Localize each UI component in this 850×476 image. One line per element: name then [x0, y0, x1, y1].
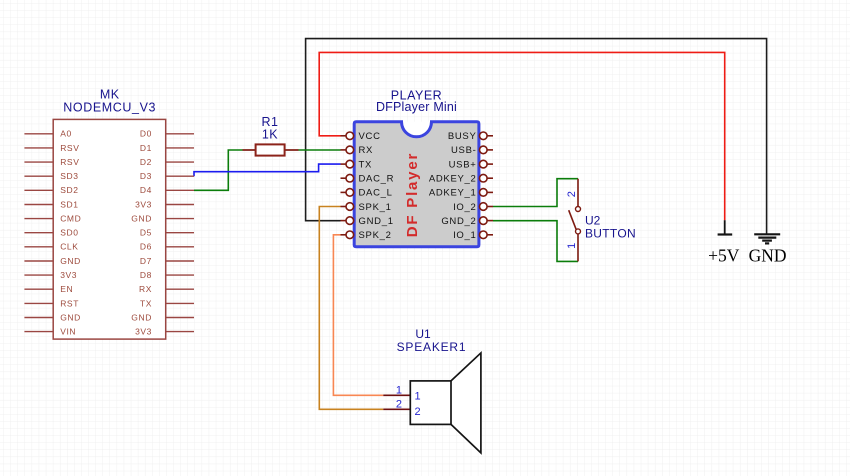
- svg-text:GND_2: GND_2: [441, 216, 476, 227]
- svg-text:GND: GND: [749, 245, 787, 265]
- svg-text:TX: TX: [359, 159, 373, 170]
- svg-text:SD3: SD3: [60, 171, 78, 181]
- DFPlayer left pin DAC_L: [341, 191, 347, 193]
- svg-text:1K: 1K: [262, 127, 278, 141]
- DFPlayer right pin IO_2: [487, 206, 493, 208]
- NodeMCU right pin D1: [166, 147, 194, 149]
- svg-text:1: 1: [415, 390, 421, 402]
- svg-text:2: 2: [415, 406, 421, 418]
- NodeMCU right pin D6: [166, 246, 194, 248]
- NodeMCU left pin 9 CLK: [24, 246, 53, 248]
- NodeMCU left pin 2 RSV: [24, 147, 53, 149]
- DFPlayer right pin USB+: [487, 163, 493, 165]
- DFPlayer right pin IO_1: [487, 234, 493, 236]
- svg-text:A0: A0: [60, 129, 72, 139]
- NodeMCU right pin 3V3: [166, 331, 194, 333]
- svg-text:GND_1: GND_1: [359, 216, 394, 227]
- NodeMCU left pin 15 VIN: [24, 331, 53, 333]
- DFPlayer left pin RX: [341, 149, 347, 151]
- NodeMCU left pin 7 CMD: [24, 218, 53, 220]
- svg-text:1: 1: [396, 385, 402, 397]
- button U2 lever: [569, 210, 577, 230]
- svg-text:BUTTON: BUTTON: [585, 227, 636, 241]
- NodeMCU left pin 13 RST: [24, 302, 53, 304]
- NodeMCU right pin D4: [166, 189, 194, 191]
- speaker body: [410, 381, 451, 425]
- svg-text:1: 1: [566, 243, 578, 249]
- svg-text:D5: D5: [140, 228, 152, 238]
- NodeMCU left pin 5 SD2: [24, 189, 53, 191]
- svg-text:U1: U1: [415, 327, 431, 341]
- DFPlayer right pin BUSY: [487, 135, 493, 137]
- svg-text:SPEAKER1: SPEAKER1: [397, 340, 467, 354]
- speaker pin 1 lead: [383, 394, 410, 396]
- svg-text:SD2: SD2: [60, 185, 78, 195]
- NodeMCU left pin 4 SD3: [24, 175, 53, 177]
- svg-text:RX: RX: [359, 145, 374, 156]
- NodeMCU left pin 6 SD1: [24, 204, 53, 206]
- svg-text:U2: U2: [585, 213, 601, 227]
- svg-text:RSV: RSV: [60, 157, 79, 167]
- svg-text:USB-: USB-: [451, 145, 477, 156]
- resistor R1 leads: [243, 149, 256, 151]
- NodeMCU left pin 8 SD0: [24, 232, 53, 234]
- wire green: resistor R1 right lead to DFPlayer RX: [299, 149, 341, 151]
- svg-text:D0: D0: [140, 129, 152, 139]
- DFPlayer right pin GND_2: [487, 220, 493, 222]
- svg-text:ADKEY_1: ADKEY_1: [429, 188, 477, 199]
- NodeMCU left pin 1 A0: [24, 133, 53, 135]
- NodeMCU right pin D7: [166, 260, 194, 262]
- NodeMCU right pin D2: [166, 161, 194, 163]
- speaker horn: [451, 353, 481, 453]
- button U2 bottom contact: [576, 229, 581, 234]
- DFPlayer left pin TX: [341, 163, 347, 165]
- svg-text:CMD: CMD: [60, 214, 81, 224]
- NodeMCU left pin 3 RSV: [24, 161, 53, 163]
- NodeMCU right pin GND: [166, 317, 194, 319]
- NodeMCU right pin TX: [166, 302, 194, 304]
- svg-text:SD1: SD1: [60, 199, 78, 209]
- svg-text:2: 2: [566, 191, 578, 197]
- svg-text:RST: RST: [60, 298, 79, 308]
- svg-text:IO_1: IO_1: [453, 230, 476, 241]
- svg-text:D8: D8: [140, 270, 152, 280]
- svg-text:IO_2: IO_2: [453, 202, 476, 213]
- ground symbol: [754, 234, 780, 243]
- NodeMCU right pin D8: [166, 274, 194, 276]
- svg-text:SPK_1: SPK_1: [359, 202, 392, 213]
- wire black GND: DFPlayer GND_1 to GND symbol: [306, 39, 767, 235]
- svg-text:EN: EN: [60, 284, 73, 294]
- NodeMCU left pin 11 3V3: [24, 274, 53, 276]
- DFPlayer right pin ADKEY_1: [487, 191, 493, 193]
- NodeMCU right pin D3: [166, 175, 194, 177]
- svg-text:SD0: SD0: [60, 228, 78, 238]
- NodeMCU right pin 3V3: [166, 204, 194, 206]
- svg-text:D6: D6: [140, 242, 152, 252]
- button U2 top contact: [577, 179, 579, 207]
- svg-text:TX: TX: [140, 298, 152, 308]
- svg-text:D7: D7: [140, 256, 152, 266]
- svg-text:VIN: VIN: [60, 327, 76, 337]
- svg-text:D2: D2: [140, 157, 152, 167]
- DFPlayer left pin DAC_R: [341, 177, 347, 179]
- svg-text:+5V: +5V: [708, 245, 740, 265]
- DFPlayer left pin VCC: [341, 135, 347, 137]
- svg-text:DF Player: DF Player: [404, 152, 421, 237]
- DFPlayer right pin ADKEY_2: [487, 177, 493, 179]
- svg-text:D3: D3: [140, 171, 152, 181]
- NodeMCU right pin RX: [166, 288, 194, 290]
- svg-text:NODEMCU_V3: NODEMCU_V3: [63, 101, 156, 115]
- svg-text:GND: GND: [131, 312, 152, 322]
- DFPlayer left pin SPK_2: [341, 234, 347, 236]
- DFPlayer right pin USB-: [487, 149, 493, 151]
- svg-text:DAC_L: DAC_L: [359, 188, 393, 199]
- wire red +5V: DFPlayer VCC to +5V flag: [319, 52, 725, 220]
- NodeMCU left pin 12 EN: [24, 288, 53, 290]
- svg-text:3V3: 3V3: [60, 270, 77, 280]
- wire blue: NodeMCU D3 to DFPlayer TX: [194, 164, 341, 176]
- DFPlayer notch interior: [402, 122, 432, 137]
- NodeMCU right pin D0: [166, 133, 194, 135]
- +5V power flag: [724, 220, 726, 234]
- svg-text:VCC: VCC: [359, 131, 381, 142]
- svg-text:RX: RX: [139, 284, 152, 294]
- svg-text:GND: GND: [131, 214, 152, 224]
- svg-text:CLK: CLK: [60, 242, 78, 252]
- svg-text:2: 2: [396, 399, 402, 411]
- svg-text:3V3: 3V3: [135, 199, 152, 209]
- svg-text:GND: GND: [60, 256, 81, 266]
- DFPlayer left pin SPK_1: [341, 206, 347, 208]
- NodeMCU right pin GND: [166, 218, 194, 220]
- NodeMCU right pin D5: [166, 232, 194, 234]
- speaker pin 2 lead: [383, 408, 410, 410]
- svg-text:SPK_2: SPK_2: [359, 230, 392, 241]
- svg-text:DAC_R: DAC_R: [359, 174, 395, 185]
- svg-text:BUSY: BUSY: [448, 131, 477, 142]
- wire orange: DFPlayer SPK_1 to speaker pin 2: [319, 207, 383, 410]
- wire green: NodeMCU D4 to resistor R1 left lead: [194, 150, 243, 190]
- DFPlayer U body: [354, 122, 479, 247]
- svg-text:3V3: 3V3: [135, 327, 152, 337]
- wire green: DFPlayer IO_2 to button pin 2: [493, 179, 578, 207]
- svg-text:DFPlayer Mini: DFPlayer Mini: [376, 100, 457, 114]
- wire green: DFPlayer GND_2 to button pin 1: [493, 221, 578, 262]
- svg-text:GND: GND: [60, 312, 81, 322]
- NodeMCU left pin 14 GND: [24, 317, 53, 319]
- svg-text:D4: D4: [140, 185, 152, 195]
- DFPlayer left pin GND_1: [341, 220, 347, 222]
- svg-text:D1: D1: [140, 143, 152, 153]
- svg-text:RSV: RSV: [60, 143, 79, 153]
- svg-text:ADKEY_2: ADKEY_2: [429, 174, 477, 185]
- resistor R1 body: [256, 144, 285, 155]
- svg-text:USB+: USB+: [449, 159, 477, 170]
- svg-text:MK: MK: [100, 88, 120, 102]
- NodeMCU left pin 10 GND: [24, 260, 53, 262]
- NodeMCU MK body: [53, 119, 166, 339]
- wire salmon: DFPlayer SPK_2 to speaker pin 1: [333, 235, 383, 396]
